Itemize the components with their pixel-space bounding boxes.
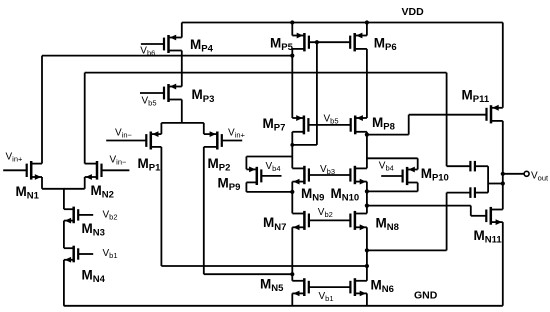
wire MP1 drain to MN6 drain node	[161, 265, 367, 267]
svg-text:GND: GND	[414, 290, 438, 302]
transistor MN10	[350, 166, 367, 214]
svg-text:VDD: VDD	[402, 6, 425, 18]
transistor MP8	[351, 115, 367, 168]
wire GND rail	[64, 305, 503, 307]
wire MP5-MP6 gate	[309, 41, 350, 43]
junction MP1 drain at MN6 drain node	[365, 264, 369, 268]
transistor MP1	[106, 123, 161, 266]
transistor MN2	[85, 73, 130, 189]
wire MP2 drain to MN5 drain node	[204, 273, 292, 275]
wire node A horizontal (MP3 source to MN1 drain)	[42, 55, 292, 57]
wire MP1/MP2 common source tee	[161, 122, 203, 124]
junction MN8 source at Cc2 wire	[365, 248, 369, 252]
junction MP5 source at VDD	[290, 20, 294, 24]
junction MP9 drain at MN9 source	[290, 190, 294, 194]
junction MP2 drain at MN5 drain node	[290, 272, 294, 276]
junction MN11 gate tap	[365, 204, 369, 208]
transistor MP7	[292, 115, 308, 168]
wire MN7-MN8 gate Vb2	[309, 219, 351, 221]
transistor MP6	[350, 23, 367, 119]
junction MP5/MP6 gate tap	[315, 40, 319, 44]
wire MP10 drain loop	[367, 183, 418, 192]
junction MP8 drain node	[365, 133, 369, 137]
junction caps at output	[501, 181, 505, 185]
junction MP10 drain at MN10 source	[365, 189, 369, 193]
transistor MP2	[204, 123, 242, 274]
wire gate tap down to MP7 drain	[292, 42, 317, 145]
transistor MN1	[3, 56, 42, 189]
wire NMOS pair tail	[42, 188, 85, 190]
transistor MN8	[350, 211, 367, 281]
wire MP8 drain to MP11 gate	[367, 115, 487, 135]
wire MN9-MN10 gate Vb3	[309, 174, 351, 176]
transistor MP9	[246, 167, 281, 186]
transistor MN4	[64, 246, 93, 306]
transistor MN5	[292, 278, 309, 306]
transistor MP10	[381, 167, 418, 186]
transistor MN11	[486, 207, 503, 306]
junction Vout tap	[501, 172, 505, 176]
junction MP6 source at VDD	[365, 20, 369, 24]
transistor MP11	[487, 23, 503, 210]
transistor MN3	[64, 207, 93, 249]
wire MP9 source loop	[246, 157, 292, 170]
transistor MP4	[141, 23, 182, 87]
junction node A at MP5 drain	[290, 54, 294, 58]
capacitor Cc1	[447, 161, 489, 172]
wire tail tap down to MN3	[63, 189, 65, 209]
transistor MP5	[292, 23, 309, 119]
wire capacitors to output	[488, 166, 503, 192]
wire to Vout terminal	[503, 173, 524, 175]
transistor MN6	[350, 278, 367, 306]
wire MN8 source to Cc2	[367, 193, 447, 251]
wire MP10 source loop	[367, 158, 418, 169]
wire MP7-MP8 gate Vb5	[308, 124, 350, 126]
capacitor Cc2	[447, 187, 489, 198]
wire MN5-MN6 gate Vb1	[309, 286, 351, 288]
junction gate tap at MP7 drain	[290, 143, 294, 147]
wire MP9 drain loop	[246, 182, 292, 192]
transistor MP3	[140, 84, 182, 123]
wire MN10 source to MN11 gate	[367, 206, 486, 216]
wire node B horizontal (MN2 drain to Cc1)	[85, 73, 447, 167]
wire VDD rail	[182, 22, 503, 24]
transistor MN9	[292, 166, 309, 214]
node Vout terminal	[524, 171, 529, 176]
transistor MN7	[292, 211, 309, 281]
